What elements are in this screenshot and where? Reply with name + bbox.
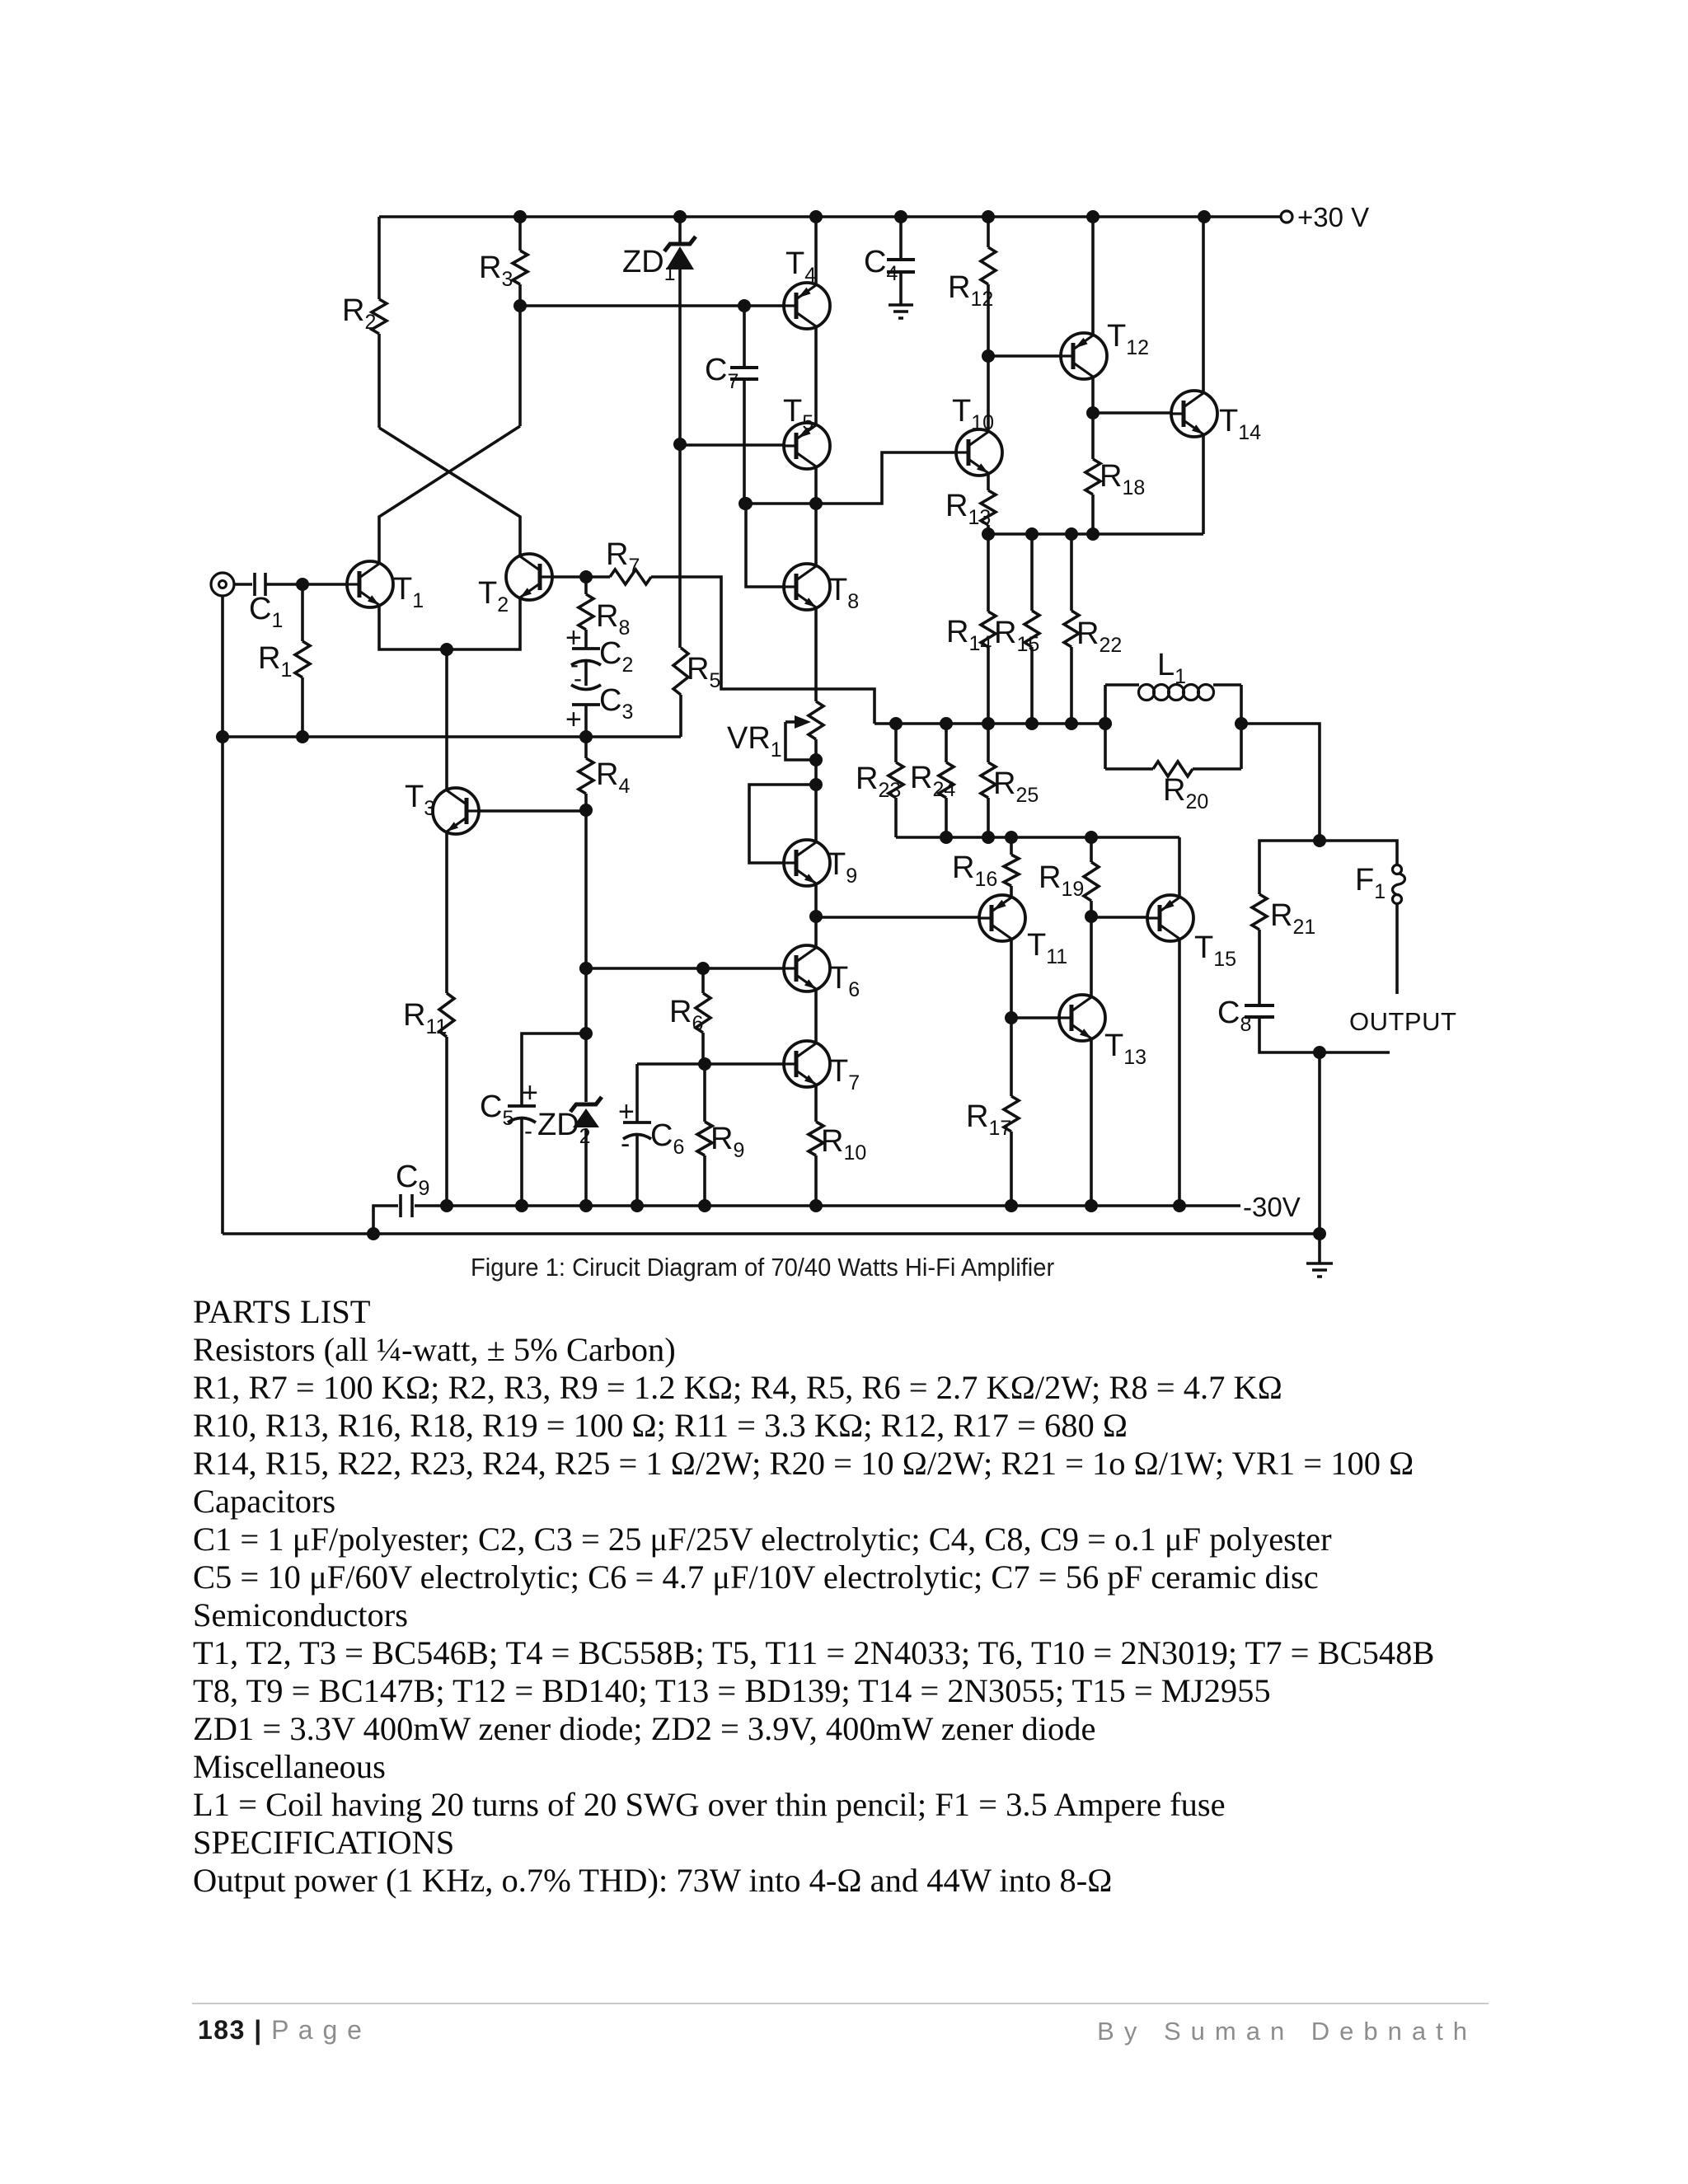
- svg-text:+: +: [618, 1096, 635, 1127]
- transistor T14: [1171, 391, 1261, 444]
- wire T9 base loop: [749, 785, 816, 863]
- node T9 emitter / T11 base: [809, 910, 823, 923]
- node R19 bottom / T15 base / T13 collector: [1085, 910, 1098, 923]
- resistor R18: [1085, 459, 1145, 534]
- svg-text:T4: T4: [785, 246, 816, 287]
- input terminal: [211, 573, 234, 596]
- node C9 left: [367, 1227, 380, 1240]
- wire T10 collector: [987, 356, 990, 433]
- potentiometer VR1: [727, 701, 823, 785]
- node T5/T8/C7 junction line: [745, 452, 956, 504]
- wire T5 emitter to node: [814, 466, 818, 504]
- ground symbol output: [1306, 1234, 1333, 1277]
- wire T6 collector: [814, 916, 818, 949]
- wire T1/T2 emitter junction: [379, 597, 520, 649]
- resistor R4: [579, 737, 630, 810]
- wire +30V top supply rail: [379, 215, 1281, 218]
- wire T4 base line: [520, 304, 784, 307]
- svg-text:T2: T2: [478, 576, 509, 616]
- resistor R22: [1064, 534, 1122, 724]
- wire T13 collector: [1090, 916, 1093, 998]
- node R4 bottom / T3 base: [579, 804, 593, 817]
- transistor T10: [952, 394, 1002, 476]
- svg-text:C2: C2: [599, 636, 633, 677]
- capacitor C6: [618, 1064, 684, 1206]
- capacitor C3 electrolytic: [565, 662, 633, 737]
- wire node rail y1016: [896, 836, 1179, 839]
- svg-text:-: -: [574, 665, 582, 692]
- svg-text:C1: C1: [249, 592, 283, 632]
- wire T2 base to R7: [552, 575, 610, 579]
- svg-text:R21: R21: [1270, 898, 1315, 939]
- wire T4 top to rail: [814, 217, 818, 286]
- node C7 top on T4 base line: [738, 299, 751, 312]
- transistor T7: [784, 1041, 860, 1094]
- fuse F1: [1320, 841, 1405, 994]
- resistor R14: [946, 534, 996, 724]
- svg-text:+: +: [565, 622, 582, 654]
- node VR1 wiper tie: [809, 753, 823, 766]
- svg-text:R23: R23: [856, 762, 901, 802]
- wire T14 collector to rail: [1202, 217, 1205, 394]
- wire T6 base line: [586, 967, 784, 970]
- inductor L1 / resistor R20 tank: [1105, 648, 1241, 813]
- transistor T2: [478, 554, 552, 616]
- transistor T6: [784, 945, 860, 1001]
- node T14 base tap: [1086, 406, 1100, 419]
- node T11 emitter / T13 base: [1005, 1011, 1018, 1024]
- resistor R16: [952, 837, 1019, 898]
- svg-text:R4: R4: [596, 757, 630, 798]
- svg-text:C6: C6: [650, 1118, 684, 1159]
- svg-text:R8: R8: [596, 599, 630, 640]
- svg-text:ZD1: ZD1: [622, 245, 676, 285]
- svg-text:R25: R25: [993, 766, 1039, 807]
- transistor T4: [784, 246, 830, 329]
- resistor R2: [342, 217, 387, 428]
- svg-text:R16: R16: [952, 851, 997, 891]
- wire T9 emitter to node: [814, 883, 818, 916]
- svg-text:R1: R1: [258, 641, 292, 682]
- svg-text:-30V: -30V: [1243, 1192, 1301, 1222]
- svg-text:R6: R6: [669, 995, 703, 1035]
- svg-text:-: -: [621, 1128, 630, 1160]
- svg-text:R22: R22: [1076, 616, 1122, 657]
- transistor T3: [405, 780, 479, 834]
- svg-text:T1: T1: [393, 572, 424, 612]
- wire T13 emitter: [1090, 1038, 1093, 1206]
- capacitor C8: [1217, 996, 1390, 1052]
- resistor R6: [669, 968, 710, 1064]
- transistor T11: [979, 895, 1067, 968]
- svg-text:T8: T8: [828, 573, 859, 613]
- node R1 tap: [296, 578, 309, 591]
- svg-text:R15: R15: [994, 616, 1039, 656]
- node T6 base tap: [579, 962, 593, 975]
- wire T9 collector: [814, 785, 818, 843]
- node R12 bottom / T12 base / T10 collector: [982, 349, 995, 363]
- svg-text:F1: F1: [1355, 863, 1386, 903]
- resistor R19: [1039, 837, 1099, 916]
- node tank right: [1235, 717, 1248, 730]
- svg-text:OUTPUT: OUTPUT: [1349, 1007, 1456, 1036]
- resistor R21: [1252, 841, 1320, 1005]
- wire R2 column crossover to T2 collector: [379, 428, 520, 557]
- transistor T8: [784, 564, 859, 613]
- wire T4 to T5: [814, 326, 818, 426]
- resistor R9: [697, 1064, 744, 1206]
- wire T3 base line: [479, 809, 586, 813]
- wire T15 base line: [1091, 916, 1147, 919]
- resistor R12: [948, 217, 996, 356]
- svg-text:T5: T5: [783, 394, 814, 434]
- node output column top: [1313, 834, 1326, 847]
- svg-text:R11: R11: [403, 998, 447, 1038]
- resistor R8: [579, 577, 630, 640]
- wire R4 column down: [584, 810, 588, 1102]
- capacitor C2 electrolytic: [565, 622, 633, 678]
- svg-text:C3: C3: [599, 683, 633, 724]
- svg-text:T14: T14: [1219, 404, 1261, 444]
- wire feedback rail y894: [223, 735, 681, 738]
- wire T15 emitter: [1178, 938, 1181, 1206]
- resistor R5: [673, 444, 720, 737]
- svg-text:T11: T11: [1027, 928, 1067, 968]
- svg-text:R7: R7: [606, 537, 640, 578]
- svg-text:T3: T3: [405, 780, 435, 820]
- wire T8 collector: [814, 504, 818, 567]
- svg-text:R24: R24: [910, 761, 955, 801]
- resistor R17: [966, 1018, 1019, 1206]
- svg-text:VR1: VR1: [727, 721, 782, 762]
- svg-text:+30 V: +30 V: [1297, 202, 1369, 232]
- svg-text:R20: R20: [1163, 773, 1208, 813]
- svg-text:T6: T6: [829, 961, 860, 1001]
- wire R3 column crossover to T1 collector: [379, 426, 520, 565]
- resistor R15: [994, 534, 1039, 724]
- svg-text:R18: R18: [1100, 459, 1145, 499]
- svg-text:+: +: [522, 1077, 538, 1108]
- wire node line y648: [988, 532, 1203, 536]
- wire T11 base line: [816, 916, 979, 919]
- svg-text:T12: T12: [1107, 319, 1149, 359]
- resistor R3: [479, 217, 527, 426]
- wire T6 emitter to T7: [814, 988, 818, 1044]
- wire -30V rail: [447, 1204, 1240, 1207]
- svg-text:C9: C9: [396, 1160, 429, 1200]
- wire R7 to T8 emitter node rail: [651, 577, 874, 724]
- svg-text:+: +: [565, 704, 582, 735]
- wire T14 emitter down: [1202, 434, 1205, 534]
- zener diode ZD1: [622, 217, 696, 444]
- svg-text:-: -: [524, 1118, 532, 1145]
- capacitor C5 electrolytic: [480, 1033, 586, 1206]
- node ZD1 / T5 base: [673, 438, 687, 451]
- wire T7 base line: [637, 1062, 784, 1066]
- resistor R23: [856, 724, 903, 837]
- wire T11 emitter down: [1010, 938, 1013, 1018]
- zener diode ZD2: [537, 1097, 602, 1206]
- wire T14 base line: [1093, 411, 1171, 415]
- wire bottom ground line: [223, 1232, 1320, 1235]
- svg-text:R17: R17: [966, 1099, 1011, 1140]
- svg-text:C7: C7: [705, 353, 738, 393]
- capacitor C4 with ground: [864, 217, 915, 318]
- svg-text:R10: R10: [821, 1124, 866, 1165]
- svg-text:C8: C8: [1217, 996, 1251, 1036]
- wire T12 base line: [988, 354, 1061, 358]
- capacitor C1: [234, 573, 347, 632]
- wire T8 base: [746, 504, 784, 587]
- svg-text:R9: R9: [710, 1122, 744, 1162]
- svg-text:C5: C5: [480, 1090, 513, 1130]
- svg-text:T13: T13: [1104, 1029, 1146, 1069]
- node C5 tap: [579, 1027, 593, 1040]
- resistor R13: [945, 472, 996, 534]
- svg-text:C4: C4: [864, 245, 898, 285]
- wire output down to ground line: [1318, 1052, 1321, 1234]
- transistor T12: [1061, 319, 1149, 379]
- resistor R24: [910, 724, 955, 837]
- wire T12 emitter down: [1091, 376, 1095, 459]
- node C8 bottom / output: [1313, 1046, 1326, 1059]
- svg-text:T15: T15: [1194, 930, 1236, 971]
- svg-text:R13: R13: [945, 489, 991, 529]
- transistor T15: [1147, 895, 1236, 971]
- wire T13 base line: [1011, 1016, 1059, 1019]
- resistor R25: [981, 724, 1039, 837]
- resistor R7: [606, 537, 651, 584]
- transistor T5: [783, 394, 830, 469]
- capacitor C9: [373, 1160, 447, 1234]
- wire T8 emitter to VR1: [814, 607, 818, 701]
- capacitor C7: [705, 306, 758, 504]
- wire T15 collector: [1178, 837, 1181, 898]
- terminal +30V: [1281, 211, 1292, 223]
- svg-text:R19: R19: [1039, 860, 1084, 901]
- wire tail current to T3: [445, 649, 448, 791]
- wire output node rail y878: [874, 722, 1105, 725]
- resistor R11: [403, 831, 454, 1206]
- svg-text:R5: R5: [687, 652, 720, 692]
- resistor R10: [809, 1084, 866, 1206]
- svg-text:R2: R2: [342, 293, 376, 334]
- wire T12 collector to rail: [1091, 217, 1095, 336]
- wire tank to output column: [1241, 724, 1320, 841]
- node tank left: [1099, 717, 1112, 730]
- svg-text:R3: R3: [479, 251, 513, 291]
- svg-text:L1: L1: [1157, 648, 1186, 688]
- transistor T1: [347, 561, 424, 612]
- wire T5 base line: [680, 443, 784, 447]
- svg-text:T9: T9: [827, 847, 857, 888]
- transistor T9 diode-connected: [784, 840, 857, 888]
- svg-text:T7: T7: [829, 1054, 860, 1094]
- node R3 bottom / T4 base: [513, 299, 527, 312]
- transistor T13: [1059, 995, 1146, 1069]
- resistor R1: [258, 584, 310, 737]
- wire input shield drop: [221, 596, 224, 1234]
